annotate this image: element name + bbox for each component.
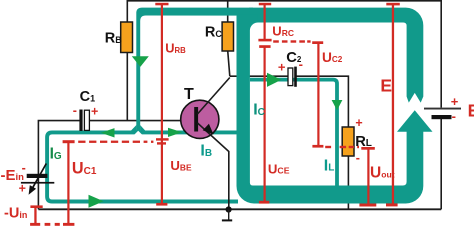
current path: IL line (C2 output) [250, 80, 337, 186]
measure -Uin bracket [30, 205, 60, 225]
transistor emitter arrow [203, 124, 214, 135]
resistor RL [342, 127, 354, 156]
arrow C2 right [267, 73, 281, 87]
source Ein plate thick [27, 174, 48, 178]
current band: top thick segment + swallowtail end [249, 8, 423, 103]
resistor RB [121, 22, 133, 53]
wire RB bottom [126, 52, 128, 121]
dash-dot line UC2-Uout [325, 146, 359, 148]
current path: IB line to transistor [138, 130, 238, 134]
capacitor C1 left plate [79, 110, 82, 132]
current path: input loop (IG) [47, 132, 238, 201]
capacitor C1 right plate [84, 110, 89, 130]
dashed line URC-UC2 [273, 40, 310, 42]
current band: big arrow + right/bottom/CE bands [237, 14, 433, 203]
measure UBE line [156, 121, 169, 206]
svg-text:+: + [278, 60, 286, 75]
transistor base bar [194, 107, 198, 132]
svg-text:E: E [468, 101, 474, 121]
svg-text:T: T [184, 86, 194, 103]
measure UCE line [259, 45, 271, 203]
resistor RC [222, 22, 233, 51]
battery E short plate [432, 115, 452, 119]
measure Uout line [359, 147, 376, 207]
current band: top thin segment with left taper into RB line [136, 8, 253, 132]
wire C2 left [230, 75, 288, 77]
svg-text:+: + [91, 105, 98, 119]
svg-text:+: + [451, 94, 459, 109]
measure UC1 line [63, 140, 75, 226]
arrow bottom right [89, 195, 104, 208]
wire base rail right [90, 120, 196, 122]
capacitor C2 right plate [294, 67, 297, 87]
wire C2 right to RL [296, 76, 348, 127]
arrow IL down [332, 100, 343, 110]
wire RC bottom [228, 51, 230, 77]
transistor emitter lead [198, 123, 229, 209]
arrow RB down [132, 56, 149, 67]
wire RB top [126, 0, 128, 23]
svg-text:-: - [73, 104, 77, 118]
wire RL bottom [347, 156, 349, 210]
svg-text:-: - [452, 109, 456, 124]
wire battery top [440, 0, 442, 108]
svg-text:+: + [355, 116, 362, 130]
dashed line UC1-UBE [78, 141, 166, 145]
capacitor C2 left plate [288, 68, 293, 86]
measure UC2 line [312, 41, 323, 147]
source Ein plate thin [21, 182, 54, 184]
arrow IG left [101, 128, 115, 137]
svg-text:E: E [380, 76, 392, 96]
battery E long plate [424, 108, 461, 110]
transistor collector lead [198, 78, 230, 115]
wire top rail [127, 0, 441, 2]
svg-text:-: - [299, 57, 303, 72]
ground junction dot [226, 206, 232, 212]
measure URC line [258, 3, 271, 42]
transistor T circle [181, 100, 219, 138]
current band: junction flare right [140, 125, 146, 131]
svg-text:+: + [19, 181, 26, 195]
arrow IB right [168, 128, 182, 137]
wire RC top [227, 0, 229, 23]
wire base rail [38, 121, 79, 210]
wire battery bottom [440, 119, 442, 209]
measure E line [386, 3, 400, 207]
ground [228, 210, 230, 220]
source Ein diagonal arrow [32, 164, 47, 190]
measure URB line [155, 3, 168, 121]
wire bottom rail [38, 208, 441, 210]
current band: junction flare left [131, 125, 137, 131]
svg-text:-: - [356, 151, 360, 165]
junction white split notch [134, 131, 142, 135]
